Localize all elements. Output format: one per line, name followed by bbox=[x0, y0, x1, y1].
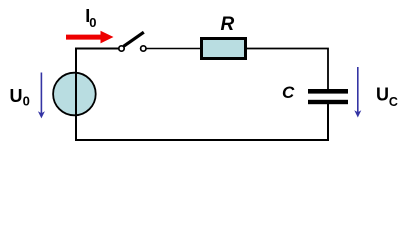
label I0 bbox=[85, 6, 96, 30]
voltage arrow U0 (blue, down) bbox=[38, 73, 45, 119]
svg-text:0: 0 bbox=[23, 94, 30, 109]
wire top-left (source top to switch) bbox=[76, 49, 119, 142]
wire resistor to top-right corner bbox=[247, 49, 328, 91]
wire capacitor to bottom bbox=[75, 103, 328, 140]
svg-text:C: C bbox=[282, 83, 295, 102]
label U0 bbox=[10, 86, 30, 109]
capacitor C top plate bbox=[308, 89, 348, 94]
voltage source U0 bbox=[53, 73, 96, 116]
current arrow I0 (red) bbox=[66, 31, 114, 44]
voltage arrow UC (blue, down) bbox=[354, 67, 361, 118]
wire through source bbox=[75, 50, 77, 140]
svg-text:R: R bbox=[221, 14, 235, 35]
resistor R bbox=[202, 39, 246, 59]
svg-text:U: U bbox=[10, 86, 23, 106]
switch lever bbox=[124, 32, 144, 46]
label UC bbox=[376, 85, 398, 109]
svg-text:U: U bbox=[376, 85, 389, 105]
capacitor C bottom plate bbox=[308, 100, 348, 104]
svg-text:0: 0 bbox=[89, 15, 96, 30]
svg-text:C: C bbox=[389, 95, 398, 109]
switch contact right bbox=[141, 46, 146, 51]
wire switch to resistor bbox=[146, 48, 200, 50]
switch contact left bbox=[119, 46, 124, 51]
